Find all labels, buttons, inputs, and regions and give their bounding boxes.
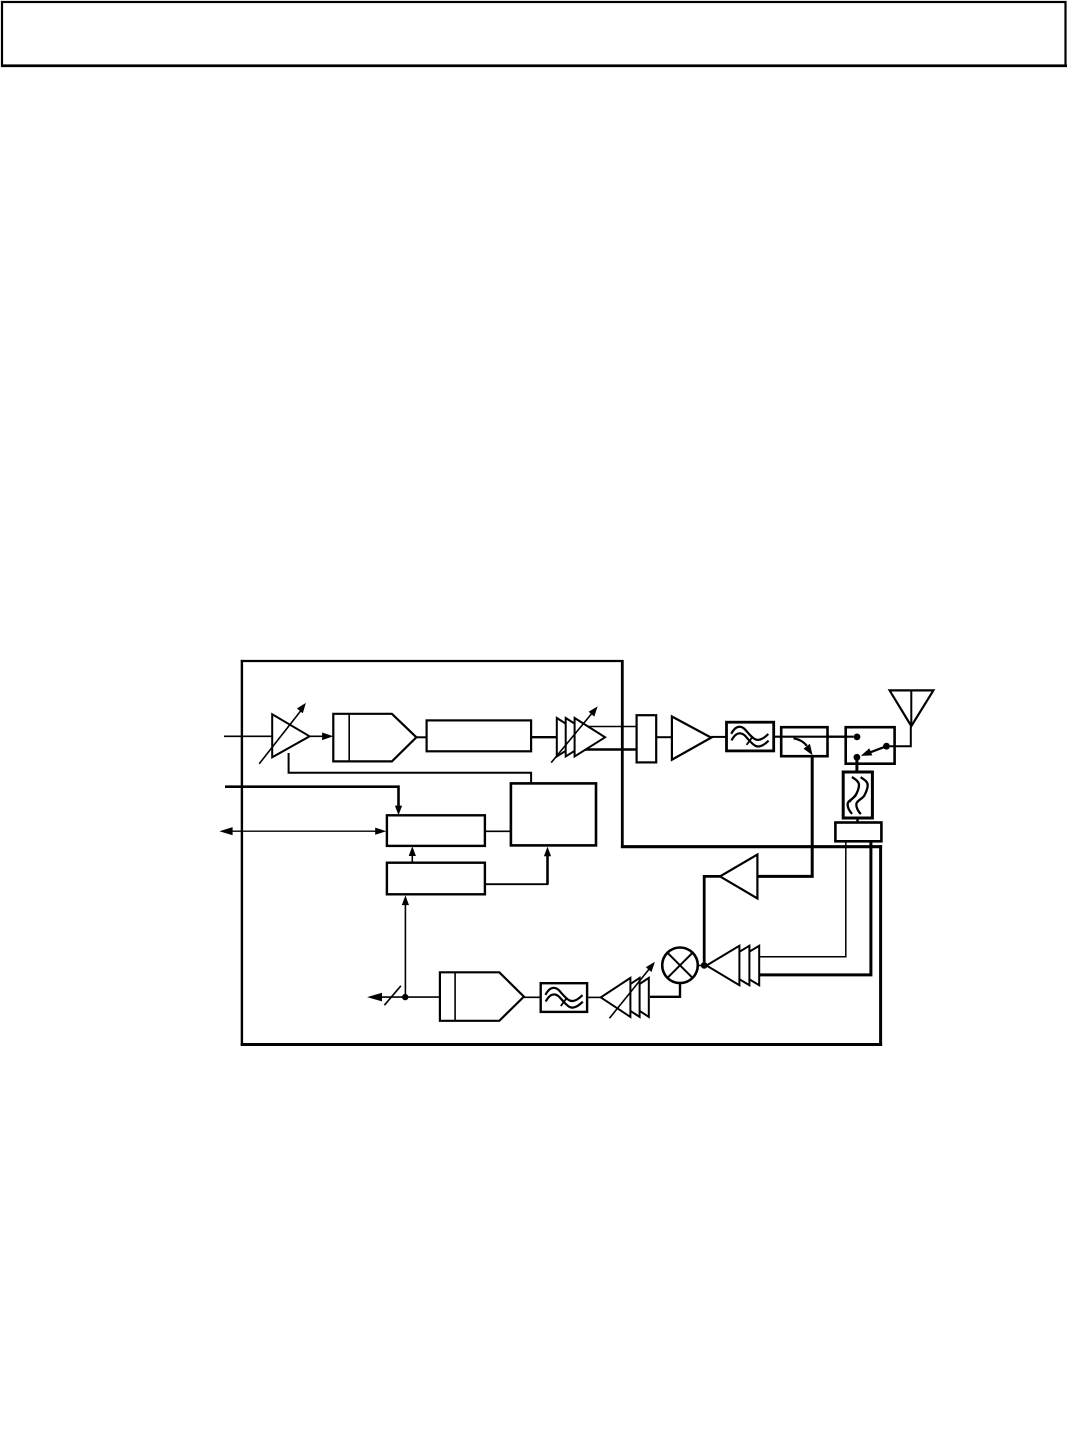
filter block B1 (reconstruction filter)	[427, 720, 531, 751]
node: RF junction dot	[701, 962, 708, 969]
wire: R2 up to R1 arrow	[409, 846, 416, 862]
SAW filter FL2	[843, 772, 872, 818]
LNA A4 (three-stage, left pointing)	[707, 946, 760, 985]
wire: mixer IF output down to RX VGA	[650, 983, 680, 997]
wire: coupler tap down to detector amp	[759, 756, 813, 876]
synthesizer block U3	[511, 783, 596, 845]
control block R1	[387, 815, 485, 846]
wire: mixer RF node	[698, 965, 707, 967]
detector amplifier A5 (left pointing)	[704, 855, 757, 963]
TX variable gain amplifier A2	[551, 706, 636, 762]
wire: PA to TX filter	[711, 736, 727, 738]
directional coupler DC1	[781, 727, 827, 756]
wire: R2 right to synthesizer bottom arrow	[485, 847, 551, 885]
power amplifier A3	[672, 717, 711, 760]
header box (empty title block)	[1, 2, 1067, 66]
wire: balun to PA	[656, 736, 672, 738]
wire: junction up to control block 2	[402, 895, 409, 997]
wire: SAW filter to matching network	[856, 818, 858, 823]
chip boundary outline	[241, 660, 882, 1046]
wire: RX VGA to RX filter	[587, 996, 601, 998]
control block R2	[387, 863, 485, 895]
wire: ADC output bus with junction	[367, 986, 440, 1005]
balun T1	[637, 715, 657, 762]
antenna switch S1	[828, 727, 895, 764]
wire: gain feedback from amp A1 to control block	[289, 753, 531, 784]
node: RX output junction dot	[402, 994, 408, 1000]
wire: switch to antenna	[890, 727, 911, 747]
matching network M1	[835, 823, 881, 842]
wire: A1 output arrow into DAC	[310, 733, 334, 741]
TX low-pass filter FL1	[727, 722, 774, 751]
RX low-pass filter FL3	[541, 983, 587, 1012]
RX variable gain amplifier A6	[601, 962, 655, 1019]
antenna ANT1	[890, 690, 934, 726]
DAC U1	[333, 714, 416, 762]
wire: R1 to synthesizer block	[485, 830, 511, 832]
wire: RX differential line upper	[760, 841, 846, 957]
wire: DAC to filter block	[416, 736, 426, 738]
wire: TX baseband input	[224, 735, 273, 737]
wire: TX filter to coupler to switch	[774, 736, 846, 738]
wire: bidirectional control bus	[219, 827, 386, 835]
wire: filter to TX VGA	[531, 736, 557, 738]
amplifier A1 (variable gain input amp)	[259, 703, 309, 764]
ADC U2	[440, 972, 524, 1021]
mixer X1	[662, 948, 698, 984]
wire: RX filter to ADC	[524, 996, 541, 998]
wire: switch to SAW filter	[855, 760, 858, 772]
wire: RX differential line lower	[760, 841, 871, 975]
wire: power control input	[225, 787, 402, 816]
